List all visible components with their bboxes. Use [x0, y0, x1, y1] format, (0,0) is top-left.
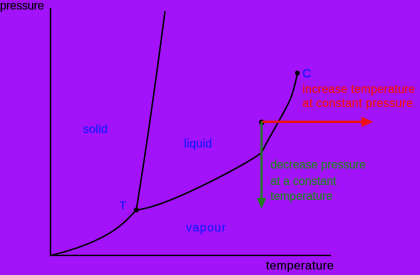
svg-text:increase temperature: increase temperature [303, 84, 416, 96]
svg-text:liquid: liquid [184, 139, 212, 151]
svg-text:temperature: temperature [271, 191, 333, 203]
sublimation curve (solid-vapour boundary) [51, 210, 137, 256]
green arrow decrease pressure at constant temperature [257, 122, 266, 209]
y-axis (pressure axis) [50, 8, 52, 256]
point on vaporization curve [259, 120, 265, 126]
svg-text:at a constant: at a constant [271, 176, 338, 188]
svg-text:solid: solid [83, 122, 108, 136]
triple point dot [134, 208, 139, 213]
svg-text:at constant pressure: at constant pressure [303, 98, 414, 110]
svg-text:C: C [303, 67, 312, 81]
red arrow increase temperature at constant pressure [262, 117, 374, 127]
critical point dot [295, 71, 300, 76]
svg-text:decrease pressure: decrease pressure [271, 160, 366, 172]
svg-text:vapour: vapour [186, 223, 227, 235]
svg-text:T: T [120, 200, 127, 212]
vaporization curve (liquid-vapour boundary, T to C) [136, 73, 297, 210]
fusion curve (solid-liquid boundary) [136, 11, 165, 210]
x-axis (temperature axis) [50, 254, 331, 256]
svg-text:pressure: pressure [0, 1, 44, 13]
svg-text:temperature: temperature [266, 259, 334, 273]
